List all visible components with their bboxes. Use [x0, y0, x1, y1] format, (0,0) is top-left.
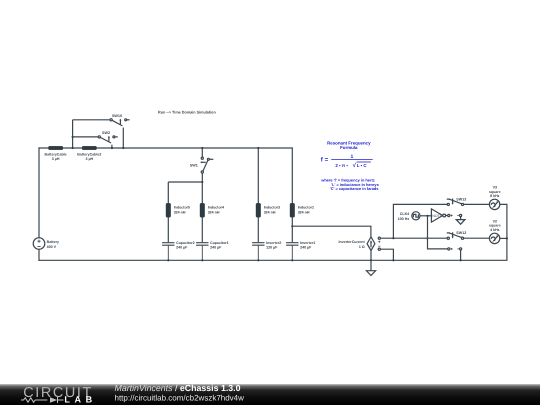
- svg-text:400 V: 400 V: [47, 245, 57, 249]
- svg-text:Inductor5: Inductor5: [174, 206, 190, 210]
- junction CLK4 tee: [426, 215, 428, 217]
- svg-text:120 µF: 120 µF: [266, 246, 278, 250]
- control SW13 plus: [448, 214, 450, 216]
- label CLK4 100 Hz: [398, 212, 410, 221]
- svg-text:1 Ω: 1 Ω: [359, 245, 365, 249]
- svg-text:SW13: SW13: [456, 197, 466, 201]
- clock source CLK4: [412, 212, 420, 220]
- label minus: [378, 245, 380, 247]
- wire SW10 down to bus: [122, 128, 124, 148]
- svg-text:'C' = capacitance in farads: 'C' = capacitance in farads: [330, 186, 379, 191]
- formula radical overline: [357, 161, 371, 163]
- capacitor Inverter2: [252, 243, 264, 261]
- svg-text:8 kHz: 8 kHz: [490, 194, 500, 198]
- switch SW12: [447, 232, 464, 239]
- junction source bus: [370, 259, 372, 261]
- junction SW1 bottom: [201, 181, 203, 183]
- inductor Inductor4: [200, 203, 205, 217]
- svg-text:BatteryCable: BatteryCable: [45, 152, 67, 156]
- label SW12 plus: [451, 248, 453, 250]
- wire SW13 to V3: [464, 203, 490, 205]
- svg-text:100 Hz: 100 Hz: [398, 217, 410, 221]
- junction branch4 tap: [291, 225, 293, 227]
- formula where lines: [320, 178, 378, 192]
- node A vertical wire: [72, 120, 74, 148]
- junction node A on bus: [72, 147, 74, 149]
- label Capacitor1 240 uF: [210, 241, 229, 250]
- wire up to SW13 row: [393, 204, 447, 238]
- inductor BatteryCable L bar: [49, 146, 63, 149]
- svg-text:Inductor1: Inductor1: [298, 206, 314, 210]
- label plus: [378, 241, 380, 243]
- svg-text:2 • π •: 2 • π •: [335, 163, 348, 168]
- label V3 square 8kHz: [489, 186, 501, 199]
- svg-text:SW2: SW2: [102, 131, 110, 135]
- wire V2 right: [500, 237, 507, 239]
- junction minus bus: [392, 259, 394, 261]
- switch SW1: [200, 148, 213, 182]
- svg-text:SW12: SW12: [456, 231, 466, 235]
- wire V3 right: [500, 204, 507, 260]
- wire plus to SW12 row: [380, 237, 447, 239]
- control terminal minus: [378, 248, 380, 250]
- formula title: [327, 140, 371, 150]
- svg-text:Battery: Battery: [47, 240, 59, 244]
- dependent current source InverterCurrent1: [367, 237, 375, 251]
- svg-text:Capacitor1: Capacitor1: [210, 241, 229, 245]
- svg-text:240 µF: 240 µF: [176, 246, 188, 250]
- wire branch4 top corner: [291, 148, 293, 203]
- label BatteryCable 3 uH: [45, 152, 67, 161]
- capacitor Inverter1: [286, 243, 298, 261]
- inductor Inductor3: [256, 203, 261, 217]
- wire to SW10: [73, 119, 110, 121]
- junction branch3 on bus: [257, 147, 259, 149]
- wire SW2 down to bus: [111, 145, 113, 148]
- svg-text:4 kHz: 4 kHz: [490, 228, 500, 232]
- wire minus to bus: [380, 249, 393, 260]
- junction branch1 bus: [167, 259, 169, 261]
- svg-text:3 µH: 3 µH: [52, 157, 60, 161]
- svg-text:324 nH: 324 nH: [174, 210, 186, 214]
- wire branch2 mid: [201, 217, 203, 242]
- capacitor Capacitor2: [162, 243, 174, 261]
- V source V2: [489, 233, 499, 243]
- svg-text:Run --> Time Domain Simulation: Run --> Time Domain Simulation: [158, 111, 216, 115]
- logo waveform: [21, 397, 64, 403]
- inverter gate NOT1: [431, 209, 445, 222]
- wire branch1 mid: [167, 217, 169, 242]
- switch SW2: [98, 136, 118, 143]
- svg-text:LAB: LAB: [64, 395, 96, 405]
- junction branch4 bus: [291, 259, 293, 261]
- wire battery bottom: [38, 249, 40, 260]
- svg-text:Formula: Formula: [340, 145, 358, 150]
- control SW12 minus: [460, 248, 462, 250]
- wire branch4 mid: [291, 217, 293, 226]
- label SW13 plus: [451, 215, 453, 217]
- label Inverter2 120 uF: [266, 241, 281, 250]
- control SW12 plus: [448, 248, 450, 250]
- wire left rail (battery top): [38, 148, 40, 238]
- label InverterCurrent 1 Ohm: [339, 240, 366, 249]
- label BatteryCable2 3 uH: [77, 152, 101, 161]
- junction SW12 minus bus: [460, 259, 462, 261]
- wire branch4 to cap: [291, 226, 293, 242]
- control SW13 minus: [460, 214, 462, 216]
- label V2 square 4kHz: [489, 219, 501, 232]
- label Inverter1 240 uF: [300, 241, 315, 250]
- wire bottom bus: [39, 259, 507, 261]
- svg-text:Inductor4: Inductor4: [208, 206, 224, 210]
- label SW13 minus: [457, 215, 459, 217]
- svg-text:240 µF: 240 µF: [210, 246, 222, 250]
- svg-text:Inverter2: Inverter2: [266, 241, 281, 245]
- svg-text:324 nH: 324 nH: [298, 210, 310, 214]
- svg-text:http://circuitlab.com/cb2wszk7: http://circuitlab.com/cb2wszk7hdv4w: [115, 394, 245, 403]
- svg-text:MartinVincents / eChassis 1.3.: MartinVincents / eChassis 1.3.0: [115, 383, 241, 393]
- label SW12 minus: [457, 248, 459, 250]
- wire branch3 mid: [257, 217, 259, 242]
- wire SW12 minus to bus: [460, 250, 462, 260]
- svg-text:SW1: SW1: [190, 164, 198, 168]
- footer bar: [0, 384, 540, 405]
- junction SW10 bus: [122, 147, 124, 149]
- wire top bus: [39, 147, 292, 149]
- control terminal plus: [378, 237, 380, 239]
- svg-text:Inverter1: Inverter1: [300, 241, 315, 245]
- capacitor Capacitor1: [196, 243, 208, 261]
- wire branch1 link: [168, 182, 202, 203]
- ground SW13: [456, 217, 465, 225]
- wire CLK4 to NOT1: [420, 215, 431, 217]
- V source V3: [489, 199, 499, 209]
- svg-text:Capacitor2: Capacitor2: [176, 241, 195, 245]
- label Inductor1 324 nH: [298, 206, 314, 215]
- wire SW12 to V2: [464, 237, 490, 239]
- formula f equals: [321, 154, 354, 163]
- ground main: [366, 260, 375, 275]
- formula fraction bar: [331, 159, 373, 161]
- label Battery 400 V: [47, 240, 59, 249]
- crossing arrow artifact: [427, 237, 429, 240]
- svg-text:NOT1: NOT1: [432, 214, 441, 218]
- svg-text:3 µH: 3 µH: [85, 157, 93, 161]
- inductor BatteryCable2 L bar: [82, 146, 96, 149]
- svg-text:240 µF: 240 µF: [300, 246, 312, 250]
- svg-text:InverterCurrent: InverterCurrent: [339, 240, 366, 244]
- wire to SW2: [73, 136, 99, 138]
- wire source to bus: [370, 251, 372, 261]
- inductor Inductor5: [166, 203, 171, 217]
- label Inductor5 324 nH: [174, 206, 190, 215]
- junction SW1 top on bus: [201, 147, 203, 149]
- svg-text:324 nH: 324 nH: [208, 210, 220, 214]
- svg-text:L • C: L • C: [357, 163, 368, 168]
- junction node A SW2 tee: [72, 136, 74, 138]
- wire CLK4 down to SW12 control: [428, 216, 448, 249]
- junction V2 right rail: [506, 237, 508, 239]
- wire NOT1 out: [446, 215, 448, 217]
- switch SW13: [447, 199, 464, 206]
- svg-text:f =: f =: [321, 157, 329, 164]
- wire tap to dependent source: [292, 226, 371, 237]
- svg-text:BatteryCable2: BatteryCable2: [77, 152, 101, 156]
- wire branch3 top: [257, 148, 259, 203]
- switch SW10: [110, 119, 130, 126]
- junction branch3 bus: [257, 259, 259, 261]
- junction branch2 bus: [201, 259, 203, 261]
- svg-text:CLK4: CLK4: [400, 212, 409, 216]
- label Inductor3 324 nH: [264, 206, 280, 215]
- formula denominator: [335, 162, 367, 169]
- label Capacitor2 240 uF: [176, 241, 195, 250]
- svg-text:SW10: SW10: [112, 114, 122, 118]
- junction plus tee: [392, 237, 394, 239]
- label Inductor4 324 nH: [208, 206, 224, 215]
- svg-text:Inductor3: Inductor3: [264, 206, 280, 210]
- inductor Inductor1: [290, 203, 295, 217]
- junction SW2 bus: [111, 147, 113, 149]
- svg-text:324 nH: 324 nH: [264, 210, 276, 214]
- battery V source Battery 400V: [33, 238, 45, 250]
